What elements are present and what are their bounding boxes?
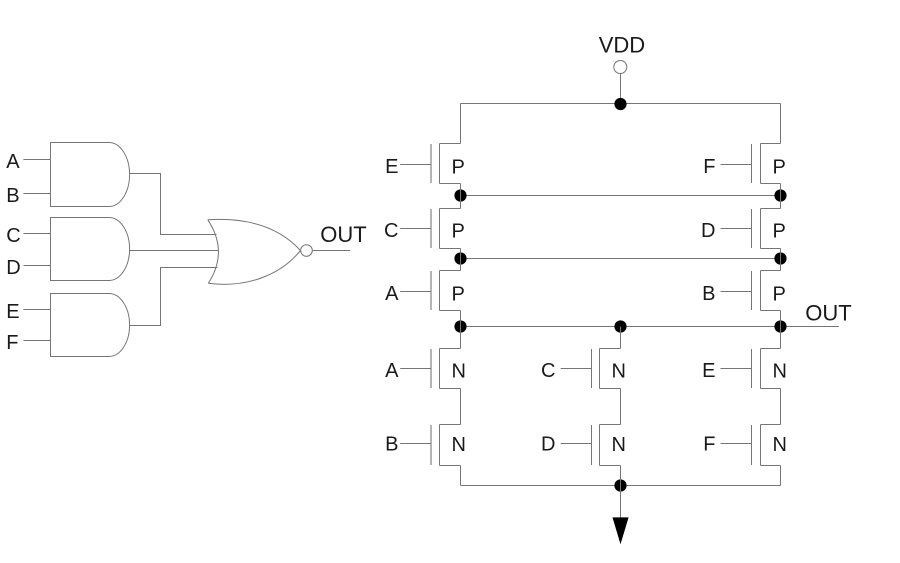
svg-text:A: A xyxy=(6,151,20,173)
svg-text:N: N xyxy=(452,361,466,383)
svg-text:E: E xyxy=(6,301,19,323)
svg-text:E: E xyxy=(702,360,715,382)
svg-text:E: E xyxy=(385,156,398,178)
svg-text:A: A xyxy=(385,283,399,305)
svg-text:A: A xyxy=(385,360,399,382)
svg-text:N: N xyxy=(612,361,626,383)
svg-text:N: N xyxy=(773,434,787,456)
svg-text:C: C xyxy=(384,220,398,242)
svg-text:F: F xyxy=(703,156,715,178)
svg-text:N: N xyxy=(773,361,787,383)
svg-text:B: B xyxy=(385,434,398,456)
svg-text:P: P xyxy=(773,221,786,243)
svg-text:N: N xyxy=(452,434,466,456)
svg-text:OUT: OUT xyxy=(320,222,366,247)
svg-text:P: P xyxy=(773,284,786,306)
svg-text:OUT: OUT xyxy=(805,300,851,325)
svg-text:B: B xyxy=(702,283,715,305)
svg-text:F: F xyxy=(703,434,715,456)
svg-text:P: P xyxy=(452,221,465,243)
svg-text:N: N xyxy=(612,434,626,456)
svg-text:B: B xyxy=(6,185,19,207)
svg-text:D: D xyxy=(6,257,20,279)
svg-text:P: P xyxy=(773,156,786,178)
svg-text:P: P xyxy=(452,284,465,306)
svg-text:C: C xyxy=(541,360,555,382)
svg-text:F: F xyxy=(6,332,18,354)
svg-text:D: D xyxy=(701,220,715,242)
svg-text:C: C xyxy=(6,225,20,247)
svg-text:P: P xyxy=(452,156,465,178)
svg-text:VDD: VDD xyxy=(599,32,645,57)
svg-text:D: D xyxy=(541,434,555,456)
